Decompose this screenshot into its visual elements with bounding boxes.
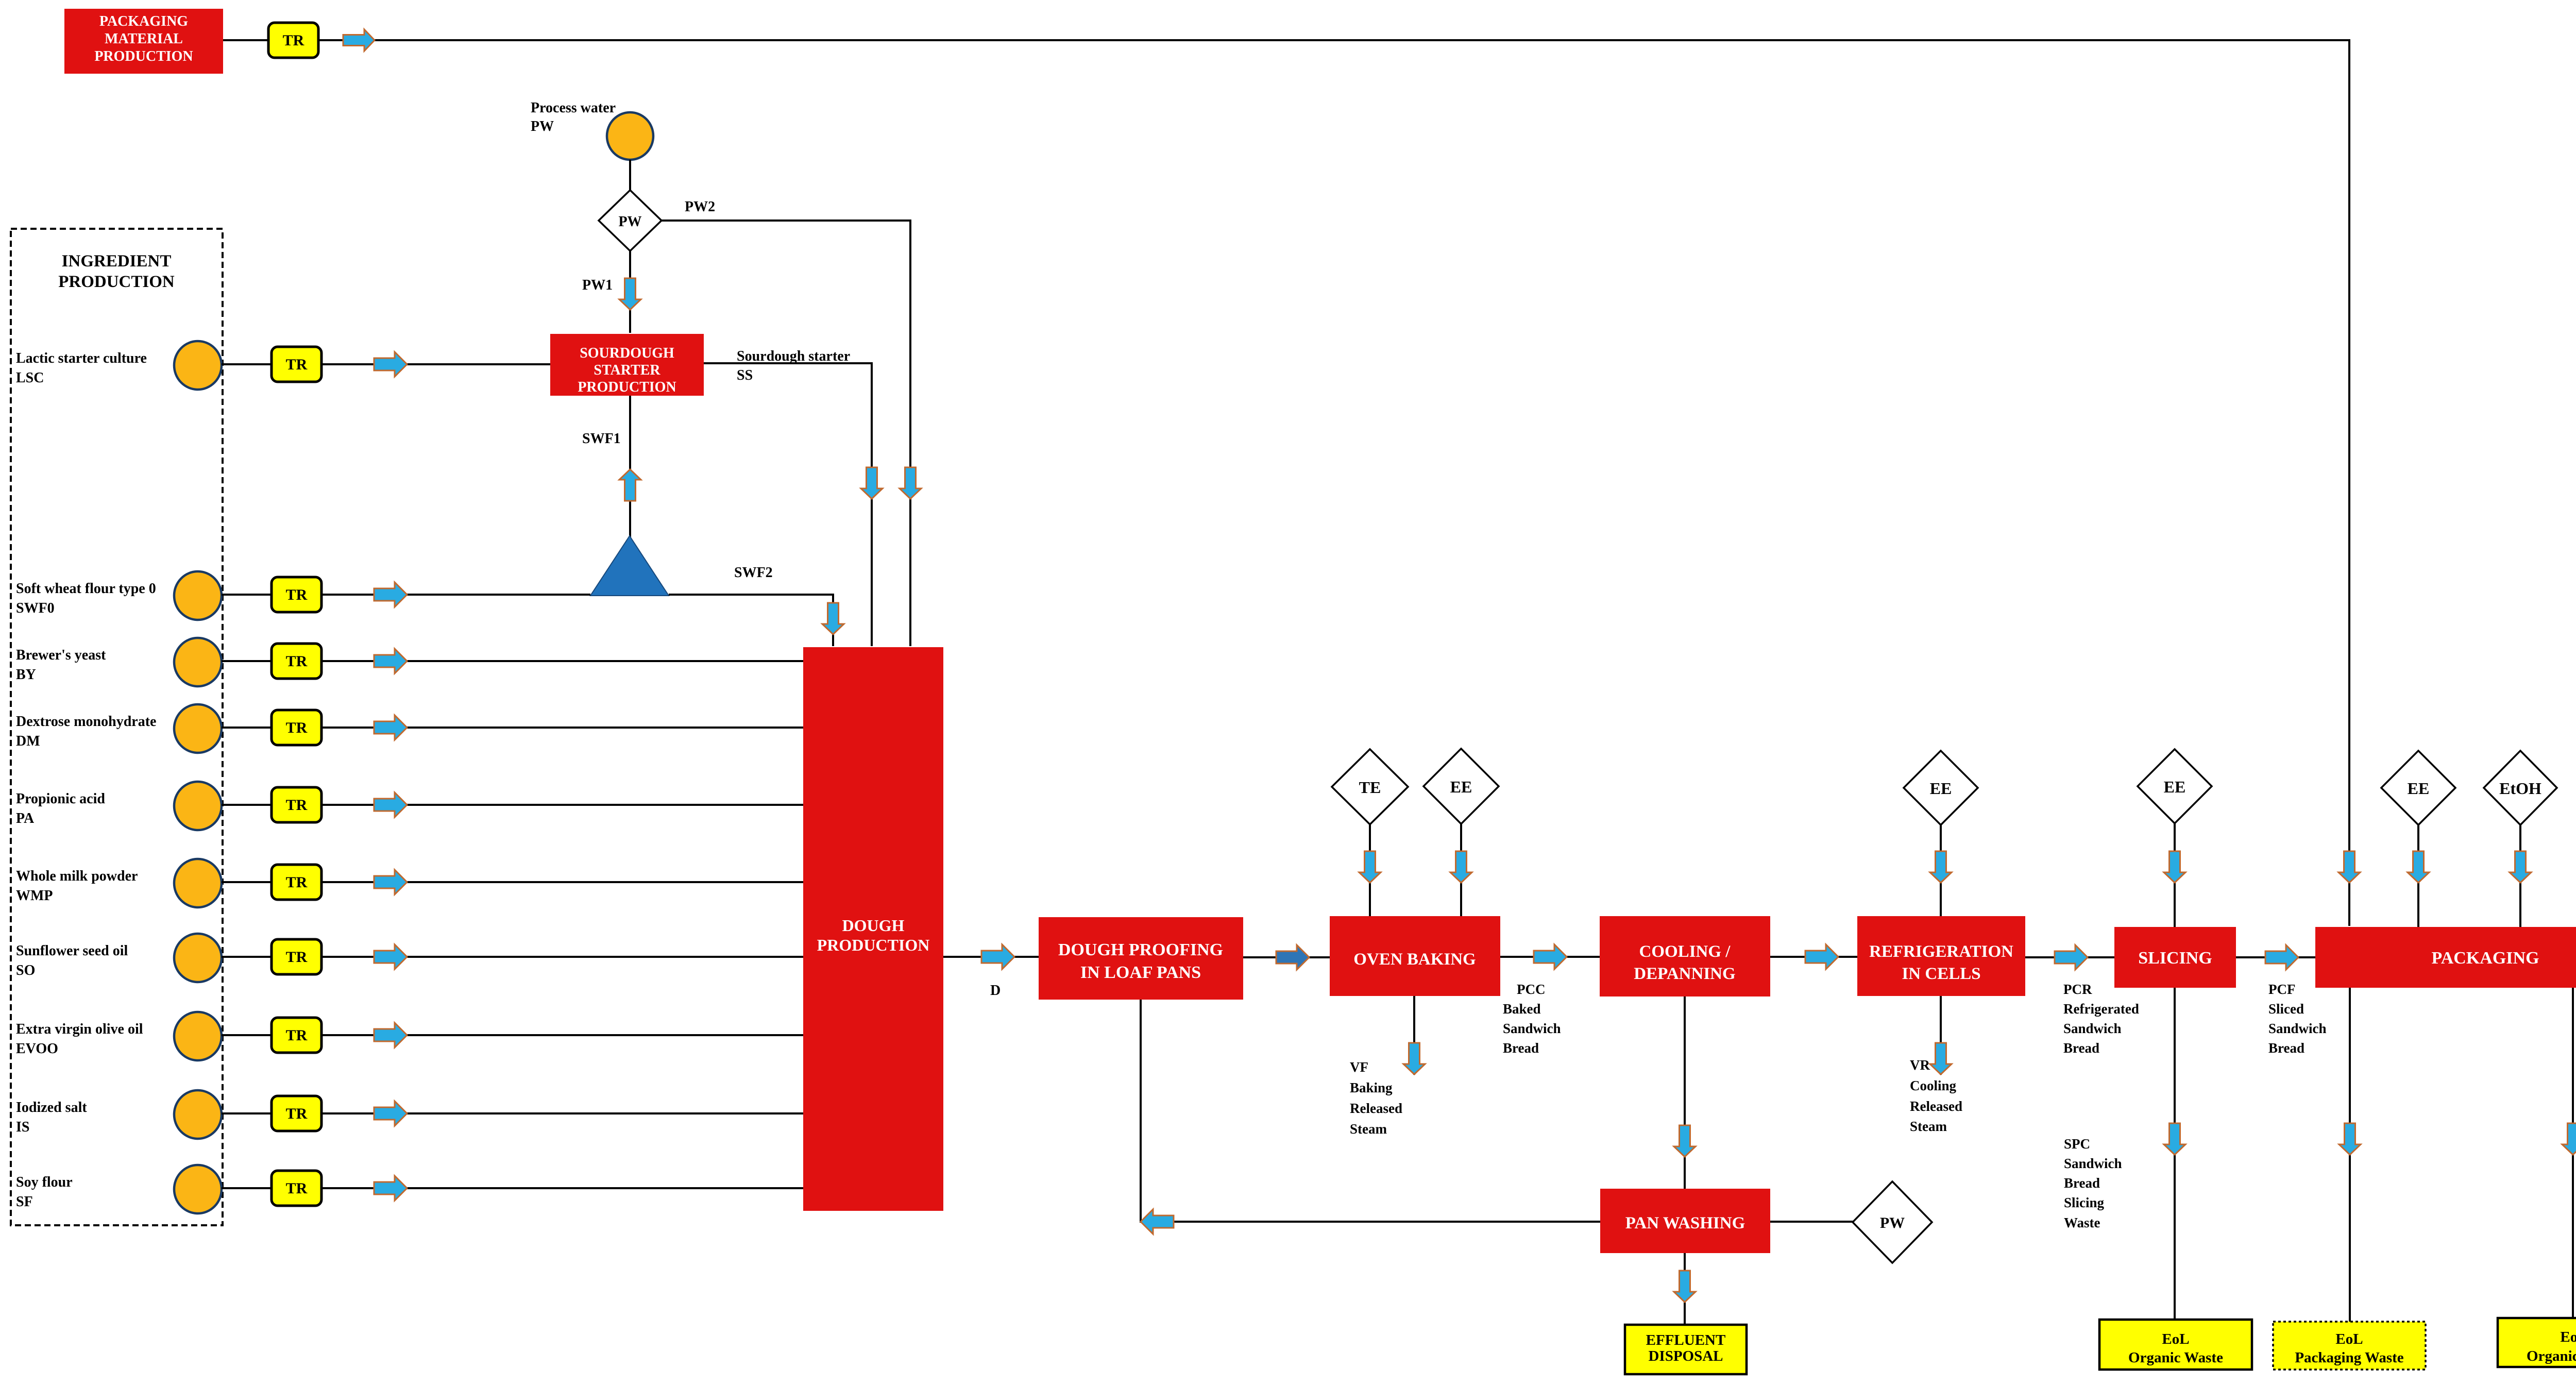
svg-text:DISPOSAL: DISPOSAL <box>1648 1348 1723 1364</box>
svg-text:EE: EE <box>1450 778 1472 796</box>
end box: EoL Organic Waste (packaging) <box>2498 1318 2576 1367</box>
flow arrow down into PACKAGING <box>2338 851 2360 883</box>
process box: COOLING / DEPANNING <box>1600 916 1770 996</box>
source circle: BY <box>174 638 222 686</box>
flow arrow TE down <box>1359 851 1381 883</box>
source circle: WMP <box>174 859 222 907</box>
svg-text:Bread: Bread <box>1503 1040 1539 1056</box>
svg-text:Baked: Baked <box>1503 1001 1541 1017</box>
flow arrow on EVOO line <box>374 1023 407 1048</box>
wire: slicing to packaging <box>2236 956 2315 958</box>
flow arrow left (pan return) <box>1141 1209 1174 1234</box>
wire: packaging waste down to EoL packaging waste <box>2349 988 2351 1322</box>
flow arrow slicing to packaging <box>2265 945 2298 970</box>
flow arrow up on SWF1 line <box>619 469 641 501</box>
svg-text:TE: TE <box>1359 778 1381 797</box>
wire: DM circle to TR <box>222 727 272 729</box>
source circle: SF <box>174 1165 222 1213</box>
svg-text:PCC: PCC <box>1517 982 1546 997</box>
wire: BY circle to TR <box>222 660 272 662</box>
process box: REFRIGERATION IN CELLS <box>1857 916 2025 996</box>
svg-text:Cooling: Cooling <box>1910 1078 1957 1093</box>
wire: SF circle to TR <box>222 1187 272 1189</box>
svg-text:PW: PW <box>618 214 641 230</box>
svg-text:TR: TR <box>286 1180 308 1197</box>
wire SWF1: box bottom down to mixer triangle <box>629 396 631 539</box>
svg-text:DOUGH: DOUGH <box>842 916 905 935</box>
process box: SLICING <box>2114 927 2236 988</box>
wire TE to oven baking <box>1369 824 1371 916</box>
flow arrow (dark) proofing to oven <box>1276 945 1309 970</box>
source circle: LSC <box>174 341 222 390</box>
svg-text:PW: PW <box>1880 1214 1905 1231</box>
process box: DOUGH PRODUCTION <box>803 647 943 1211</box>
flow arrow on packaging material line <box>343 29 375 51</box>
svg-text:DOUGH PROOFING: DOUGH PROOFING <box>1058 940 1223 959</box>
svg-text:COOLING /: COOLING / <box>1639 942 1731 961</box>
flow arrow on DM line <box>374 715 407 740</box>
svg-text:Refrigerated: Refrigerated <box>2063 1001 2139 1017</box>
svg-text:Sourdough starter: Sourdough starter <box>737 348 850 364</box>
svg-text:PRODUCTION: PRODUCTION <box>578 379 676 395</box>
svg-text:PA: PA <box>16 810 35 826</box>
wire: IS circle to TR <box>222 1112 272 1114</box>
svg-text:MATERIAL: MATERIAL <box>105 31 183 47</box>
wire: oven to cooling <box>1500 956 1600 958</box>
transport node TR (WMP) <box>272 865 321 900</box>
wire EE to oven baking <box>1460 824 1462 916</box>
wire: PA line to destination box <box>321 804 803 806</box>
wire: proofing to oven baking <box>1243 956 1330 958</box>
svg-text:Soy flour: Soy flour <box>16 1174 73 1190</box>
svg-text:Baking: Baking <box>1350 1080 1393 1095</box>
wire: LSC line to destination box <box>321 363 550 365</box>
svg-text:Sandwich: Sandwich <box>2063 1021 2122 1036</box>
wire PW2: diamond right, over and down into DOUGH PRODUCTION <box>662 221 910 646</box>
svg-text:SWF2: SWF2 <box>734 565 773 581</box>
wire: BY line to destination box <box>321 660 803 662</box>
svg-text:SF: SF <box>16 1194 33 1210</box>
process box: PAN WASHING <box>1600 1189 1770 1253</box>
splitter diamond PW <box>599 190 662 251</box>
svg-text:PACKAGING: PACKAGING <box>99 13 188 29</box>
svg-text:Released: Released <box>1350 1101 1402 1116</box>
flow arrow D <box>981 944 1014 969</box>
svg-text:EE: EE <box>1930 779 1952 798</box>
source circle: SWF0 <box>174 571 222 620</box>
process box: OVEN BAKING <box>1330 916 1500 996</box>
flow arrow down to effluent disposal <box>1674 1271 1696 1302</box>
svg-text:IN CELLS: IN CELLS <box>1902 965 1980 983</box>
svg-text:PRODUCTION: PRODUCTION <box>817 936 930 954</box>
wire: DM line to destination box <box>321 727 803 729</box>
flow arrow EE down (slicing) <box>2164 851 2185 883</box>
process box: PACKAGING <box>2315 927 2576 988</box>
wire: packaging material to TR <box>223 39 268 41</box>
svg-text:TR: TR <box>286 719 308 736</box>
svg-text:Soft wheat flour type 0: Soft wheat flour type 0 <box>16 581 156 597</box>
flow arrow refrigeration to slicing <box>2055 945 2088 970</box>
transport node TR (SO) <box>272 939 321 974</box>
svg-text:Iodized salt: Iodized salt <box>16 1100 87 1116</box>
wire: cooling to refrigeration <box>1770 956 1857 958</box>
svg-text:Brewer's yeast: Brewer's yeast <box>16 647 106 663</box>
svg-text:SO: SO <box>16 962 35 978</box>
end box: EFFLUENT DISPOSAL <box>1625 1325 1747 1374</box>
dashed group frame: INGREDIENT PRODUCTION <box>11 229 223 1225</box>
svg-text:EE: EE <box>2164 778 2186 796</box>
svg-text:PAN WASHING: PAN WASHING <box>1625 1214 1745 1232</box>
wire: WMP line to destination box <box>321 881 803 883</box>
wire: PA circle to TR <box>222 804 272 806</box>
svg-text:Propionic acid: Propionic acid <box>16 791 105 807</box>
flow arrow down on SS line <box>861 467 883 499</box>
svg-text:Waste: Waste <box>2064 1215 2100 1230</box>
input diamond PW (pan washing) <box>1853 1181 1932 1263</box>
svg-text:TR: TR <box>286 1105 308 1122</box>
input diamond EE (oven) <box>1423 749 1499 824</box>
svg-text:Steam: Steam <box>1350 1121 1387 1137</box>
svg-text:Sliced: Sliced <box>2268 1001 2304 1017</box>
svg-text:REFRIGERATION: REFRIGERATION <box>1869 942 2013 961</box>
svg-text:Sandwich: Sandwich <box>2064 1156 2122 1171</box>
svg-text:Organic Waste: Organic Waste <box>2527 1348 2576 1364</box>
flow arrow cooling to refrigeration <box>1805 944 1838 969</box>
svg-text:EoL: EoL <box>2335 1331 2363 1347</box>
svg-text:PW: PW <box>531 119 554 134</box>
svg-text:IN LOAF PANS: IN LOAF PANS <box>1080 963 1201 982</box>
svg-text:Whole milk powder: Whole milk powder <box>16 868 138 884</box>
wire PW1: diamond down to SOURDOUGH STARTER PRODUCTION <box>629 251 631 333</box>
wire: cooling down to pan washing <box>1684 996 1686 1189</box>
wire SWF2: flour line over and down into DOUGH PRODUCTION <box>669 595 833 646</box>
wire: LSC circle to TR <box>222 363 272 365</box>
wire: SWF0 line to mixer triangle <box>321 594 590 596</box>
svg-text:TR: TR <box>286 949 308 966</box>
wire: EVOO line to destination box <box>321 1034 803 1036</box>
svg-text:DEPANNING: DEPANNING <box>1634 965 1735 983</box>
wire EE to refrigeration <box>1940 825 1942 916</box>
svg-text:TR: TR <box>286 653 308 670</box>
wire: dough production to dough proofing <box>943 956 1039 958</box>
svg-text:Released: Released <box>1910 1099 1962 1114</box>
wire: packaging organic down to EoL organic waste <box>2572 988 2574 1318</box>
svg-text:EoL: EoL <box>2162 1331 2189 1347</box>
svg-text:SOURDOUGH: SOURDOUGH <box>580 345 674 361</box>
wire: refrigeration to slicing <box>2025 956 2114 958</box>
input diamond EE (refrigeration) <box>1904 751 1978 825</box>
flow arrow on WMP line <box>374 870 407 894</box>
flow arrow on SO line <box>374 944 407 969</box>
svg-text:Slicing: Slicing <box>2064 1195 2105 1210</box>
svg-text:SWF0: SWF0 <box>16 600 55 616</box>
transport node TR (EVOO) <box>272 1018 321 1053</box>
svg-text:Sandwich: Sandwich <box>2268 1021 2327 1036</box>
svg-text:DM: DM <box>16 733 40 749</box>
svg-text:D: D <box>990 983 1001 999</box>
svg-text:TR: TR <box>286 797 308 814</box>
svg-text:TR: TR <box>286 356 308 373</box>
svg-text:WMP: WMP <box>16 888 53 904</box>
svg-text:PCR: PCR <box>2063 982 2092 997</box>
svg-text:PACKAGING: PACKAGING <box>2431 949 2539 968</box>
wire: dough proofing bottom down and pan-wash return line <box>1141 1000 1600 1222</box>
svg-text:Packaging Waste: Packaging Waste <box>2295 1349 2403 1366</box>
svg-text:Sandwich: Sandwich <box>1503 1021 1561 1036</box>
flow arrow down to pan washing <box>1674 1125 1696 1157</box>
process box: SOURDOUGH STARTER PRODUCTION <box>550 334 704 396</box>
svg-text:Organic Waste: Organic Waste <box>2128 1349 2223 1366</box>
svg-text:Bread: Bread <box>2063 1040 2099 1056</box>
svg-text:IS: IS <box>16 1119 29 1135</box>
wire: EVOO circle to TR <box>222 1034 272 1036</box>
source circle: PA <box>174 782 222 830</box>
wire: SF line to destination box <box>321 1187 803 1189</box>
svg-text:Steam: Steam <box>1910 1119 1947 1134</box>
svg-text:VF: VF <box>1350 1059 1368 1075</box>
svg-text:Bread: Bread <box>2064 1175 2100 1191</box>
svg-text:Extra virgin olive oil: Extra virgin olive oil <box>16 1021 143 1037</box>
flow arrow EE down (packaging) <box>2408 851 2429 883</box>
flow arrow EE down (oven) <box>1450 851 1472 883</box>
input diamond EE (packaging) <box>2381 751 2455 825</box>
svg-text:EE: EE <box>2408 779 2430 798</box>
flow arrow EtOH down <box>2510 851 2531 883</box>
svg-text:PW1: PW1 <box>582 277 613 293</box>
flow arrow on LSC line <box>374 352 407 377</box>
process box: PACKAGING MATERIAL PRODUCTION <box>64 9 223 74</box>
wire EE to packaging <box>2417 825 2419 927</box>
wire: TR to packaging line corner and down to PACKAGING <box>318 40 2349 926</box>
flow arrow down on SWF2 line <box>822 603 844 634</box>
svg-text:Sunflower seed oil: Sunflower seed oil <box>16 943 128 959</box>
wire SS: box right, over and down into DOUGH PRODUCTION <box>704 363 872 646</box>
flow arrow down on PW1 line <box>619 278 641 310</box>
flow arrow down on PW2 line <box>900 467 921 499</box>
svg-text:VR: VR <box>1910 1057 1930 1073</box>
svg-text:EFFLUENT: EFFLUENT <box>1646 1332 1726 1348</box>
transport node TR (DM) <box>272 710 321 745</box>
input diamond EE (slicing) <box>2138 749 2212 823</box>
source circle: process water <box>607 112 653 160</box>
svg-text:BY: BY <box>16 667 36 683</box>
transport node TR (IS) <box>272 1096 321 1131</box>
transport node TR (PA) <box>272 787 321 822</box>
svg-text:PW2: PW2 <box>685 199 715 215</box>
svg-text:SS: SS <box>737 367 753 383</box>
flow arrow EE down (refrigeration) <box>1930 851 1952 883</box>
svg-text:LSC: LSC <box>16 370 44 386</box>
svg-text:PRODUCTION: PRODUCTION <box>94 48 193 64</box>
source circle: EVOO <box>174 1012 222 1060</box>
svg-text:EtOH: EtOH <box>2499 779 2541 798</box>
wire: IS line to destination box <box>321 1112 803 1114</box>
transport node TR (SWF0) <box>272 577 321 612</box>
wire: PW diamond to pan washing <box>1770 1221 1853 1223</box>
svg-text:SWF1: SWF1 <box>582 431 621 447</box>
input diamond EtOH (packaging) <box>2484 751 2557 825</box>
svg-text:TR: TR <box>286 586 308 603</box>
flow arrow oven to cooling <box>1534 944 1567 969</box>
svg-text:OVEN BAKING: OVEN BAKING <box>1353 950 1476 969</box>
flow arrow on PA line <box>374 792 407 817</box>
svg-text:Process water: Process water <box>531 100 616 116</box>
svg-text:EoL: EoL <box>2560 1329 2576 1345</box>
wire: SWF0 circle to TR <box>222 594 272 596</box>
svg-text:Bread: Bread <box>2268 1040 2304 1056</box>
svg-text:Dextrose monohydrate: Dextrose monohydrate <box>16 714 156 730</box>
svg-text:TR: TR <box>286 874 308 891</box>
flow arrow down (packaging waste) <box>2339 1123 2361 1155</box>
wire EtOH to packaging <box>2519 825 2521 927</box>
flow arrow down (packaging organic waste) <box>2562 1123 2576 1155</box>
flow arrow on BY line <box>374 649 407 673</box>
process box: DOUGH PROOFING IN LOAF PANS <box>1039 917 1243 1000</box>
flow arrow down (slicing waste) <box>2164 1123 2185 1155</box>
wire: circle to PW splitter diamond <box>629 160 631 191</box>
wire: SO line to destination box <box>321 956 803 958</box>
svg-text:SLICING: SLICING <box>2138 949 2212 968</box>
transport node TR (packaging material) <box>268 23 318 58</box>
svg-text:PRODUCTION: PRODUCTION <box>58 273 175 291</box>
wire EE to slicing <box>2174 823 2176 927</box>
svg-text:STARTER: STARTER <box>594 362 660 378</box>
end box: EoL Organic Waste (slicing) <box>2099 1320 2252 1370</box>
mixer triangle (soft wheat flour split) <box>590 536 669 596</box>
svg-text:EVOO: EVOO <box>16 1041 58 1057</box>
flow arrow on SWF0 line <box>374 582 407 607</box>
wire: WMP circle to TR <box>222 881 272 883</box>
transport node TR (BY) <box>272 644 321 679</box>
wire: pan washing down to effluent disposal <box>1684 1253 1686 1325</box>
flow arrow on SF line <box>374 1176 407 1201</box>
svg-text:TR: TR <box>283 32 304 49</box>
svg-text:Lactic starter culture: Lactic starter culture <box>16 350 147 366</box>
svg-text:SPC: SPC <box>2064 1136 2090 1152</box>
flow arrow on IS line <box>374 1101 407 1126</box>
wire: SO circle to TR <box>222 956 272 958</box>
svg-text:INGREDIENT: INGREDIENT <box>62 252 172 271</box>
wire: oven baking steam outlet down <box>1413 996 1415 1075</box>
svg-text:TR: TR <box>286 1027 308 1044</box>
source circle: DM <box>174 704 222 753</box>
wire: slicing waste down to EoL organic waste <box>2174 988 2176 1320</box>
end box: EoL Packaging Waste <box>2273 1322 2426 1370</box>
flow arrow down (VF steam) <box>1403 1043 1425 1074</box>
flow arrow down (VR steam) <box>1930 1043 1952 1074</box>
source circle: IS <box>174 1090 222 1139</box>
wire: refrigeration steam outlet down <box>1940 996 1942 1075</box>
input diamond TE (oven) <box>1332 749 1408 824</box>
transport node TR (SF) <box>272 1171 321 1206</box>
source circle: SO <box>174 934 222 982</box>
svg-text:PCF: PCF <box>2268 982 2295 997</box>
transport node TR (LSC) <box>272 347 321 382</box>
